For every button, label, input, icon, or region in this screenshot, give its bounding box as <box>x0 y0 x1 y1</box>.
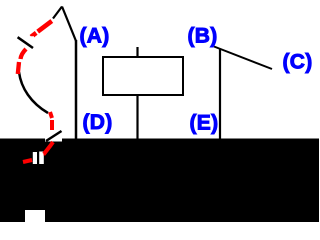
arrowhead 1 (white) <box>17 36 34 48</box>
arrowhead 2 (white) <box>45 130 62 142</box>
lightning rod tip left edge <box>53 7 62 19</box>
utility pole <box>219 49 221 139</box>
red path dash (left v1) <box>21 49 27 59</box>
red path fleck at bar <box>44 153 46 156</box>
svg-text:(C): (C) <box>283 51 313 74</box>
red path dash (final) <box>23 160 32 162</box>
house body <box>103 57 183 95</box>
red path dash (to ground) <box>44 142 53 154</box>
svg-text:(B): (B) <box>188 25 218 48</box>
ground plane (earth band) <box>0 139 319 223</box>
red path dash (mid v2) <box>50 120 54 130</box>
red path dash (mid v1) <box>50 112 52 118</box>
lightning rod right edge <box>62 7 76 42</box>
test joint bar 1 <box>33 152 37 164</box>
svg-text:(D): (D) <box>83 111 113 134</box>
red path dash (left v2) <box>18 62 19 74</box>
house support post <box>136 95 138 139</box>
earth electrode (white square in ground) <box>25 210 45 222</box>
arrowhead 1 stroke <box>18 37 33 48</box>
overhead wire <box>214 47 272 70</box>
mast wall <box>75 40 78 139</box>
down conductor curve <box>19 72 48 113</box>
arrowhead 2 stroke <box>46 131 62 141</box>
chimney stub <box>136 47 138 57</box>
red path dash (top arc d1) <box>38 21 52 32</box>
svg-text:(A): (A) <box>80 25 110 48</box>
test joint bar 2 <box>39 152 44 165</box>
svg-text:(E): (E) <box>190 112 219 135</box>
red path dash (top arc d2) <box>31 33 36 37</box>
